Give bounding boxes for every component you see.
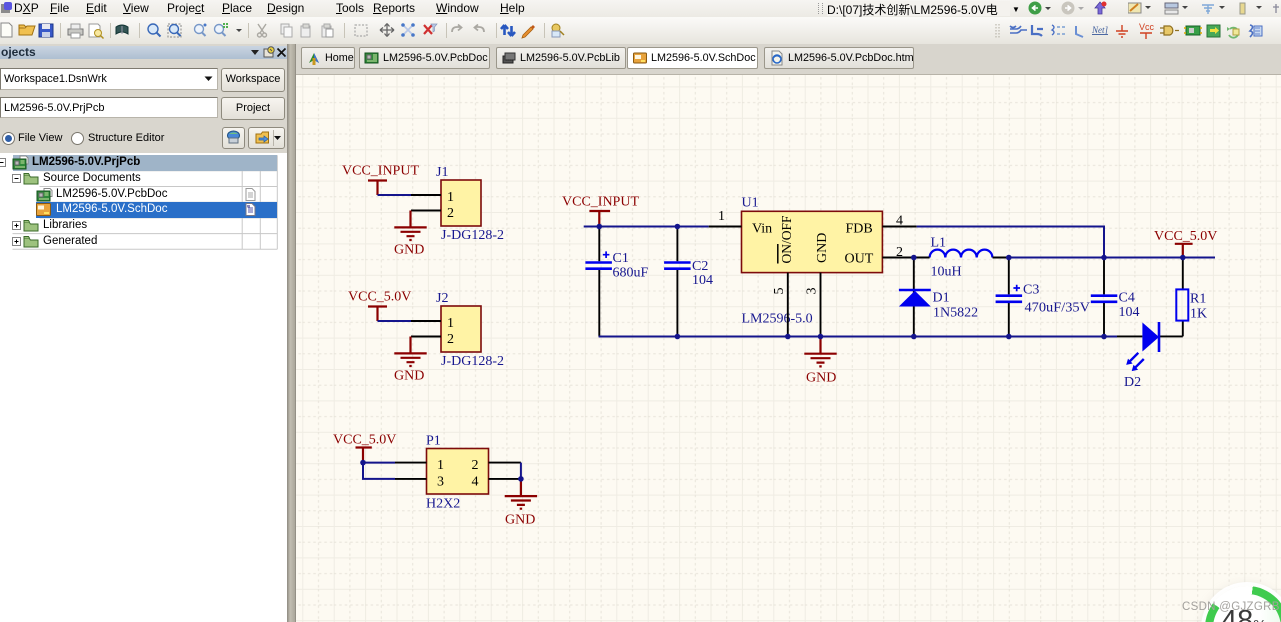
svg-text:470uF/35V: 470uF/35V xyxy=(1025,301,1091,316)
svg-text:VCC_5.0V: VCC_5.0V xyxy=(1154,229,1217,244)
connector P1 xyxy=(427,449,489,495)
wire FDB net xyxy=(917,227,1104,258)
wire bottom rail xyxy=(599,336,1117,338)
tree grid lines and columns xyxy=(0,153,287,273)
svg-text:1N5822: 1N5822 xyxy=(933,306,978,321)
svg-text:FDB: FDB xyxy=(846,222,873,237)
svg-text:C3: C3 xyxy=(1023,283,1039,298)
svg-text:1: 1 xyxy=(718,209,725,224)
svg-text:C1: C1 xyxy=(613,251,629,266)
svg-text:4: 4 xyxy=(472,474,479,489)
svg-text:GND: GND xyxy=(394,369,424,384)
LED D2 xyxy=(1117,335,1142,337)
inductor L1 xyxy=(930,250,993,258)
svg-text:3: 3 xyxy=(437,474,444,489)
svg-text:C4: C4 xyxy=(1119,291,1135,306)
ground GND (P1) xyxy=(505,479,537,509)
svg-text:VCC_INPUT: VCC_INPUT xyxy=(342,164,419,179)
power port VCC_INPUT (main) xyxy=(589,211,610,227)
svg-text:4: 4 xyxy=(896,214,903,229)
svg-text:Vcc: Vcc xyxy=(1139,22,1155,32)
ground GND (J2) xyxy=(394,337,426,367)
svg-text:1: 1 xyxy=(447,316,454,331)
svg-text:3: 3 xyxy=(804,288,819,295)
svg-text:GND: GND xyxy=(815,233,830,263)
svg-text:J-DG128-2: J-DG128-2 xyxy=(441,354,504,369)
svg-text:104: 104 xyxy=(1119,305,1140,320)
svg-text:VCC_5.0V: VCC_5.0V xyxy=(333,433,396,448)
svg-text:1: 1 xyxy=(447,190,454,205)
svg-text:GND: GND xyxy=(806,371,836,386)
svg-text:C2: C2 xyxy=(692,259,708,274)
svg-text:2: 2 xyxy=(472,458,479,473)
wire VCC_INPUT to J1 pin 1 xyxy=(378,194,412,196)
power port VCC_INPUT (J1) xyxy=(368,181,387,196)
op-amp U1 LM2596 body xyxy=(742,211,883,272)
pin 3 GND xyxy=(820,273,822,337)
svg-text:VCC_INPUT: VCC_INPUT xyxy=(562,195,639,210)
power port VCC_5.0V (output) xyxy=(1175,244,1193,258)
svg-text:J1: J1 xyxy=(436,165,448,180)
pin 5 ON/OFF xyxy=(787,273,789,337)
svg-text:2: 2 xyxy=(447,332,454,347)
pin 1 Vin xyxy=(709,226,742,228)
wire P1 left xyxy=(363,463,395,479)
svg-text:5: 5 xyxy=(772,288,787,295)
svg-text:2: 2 xyxy=(447,206,454,221)
svg-text:LM2596-5.0: LM2596-5.0 xyxy=(742,312,813,327)
diode D1 1N5822 xyxy=(913,258,915,337)
svg-text:GND: GND xyxy=(394,243,424,258)
pin 2 OUT xyxy=(882,257,913,259)
svg-text:1K: 1K xyxy=(1190,307,1207,322)
svg-text:2: 2 xyxy=(896,245,903,260)
svg-text:680uF: 680uF xyxy=(613,266,649,281)
svg-text:H2X2: H2X2 xyxy=(426,497,460,512)
resistor R1 xyxy=(1159,258,1183,337)
svg-text:Vin: Vin xyxy=(752,222,772,237)
svg-text:R1: R1 xyxy=(1190,292,1206,307)
wire output rail xyxy=(1009,257,1215,259)
svg-text:ON/OFF: ON/OFF xyxy=(780,215,795,263)
svg-text:GND: GND xyxy=(505,513,535,528)
svg-text:1: 1 xyxy=(437,458,444,473)
svg-text:U1: U1 xyxy=(742,196,759,211)
svg-text:J-DG128-2: J-DG128-2 xyxy=(441,228,504,243)
svg-text:104: 104 xyxy=(692,273,713,288)
svg-text:D1: D1 xyxy=(933,291,950,306)
svg-text:L1: L1 xyxy=(931,236,947,251)
capacitor C2 xyxy=(676,227,678,337)
svg-text:OUT: OUT xyxy=(845,252,874,267)
ground GND (J1) xyxy=(394,211,426,241)
capacitor C4 xyxy=(1103,258,1105,337)
svg-text:VCC_5.0V: VCC_5.0V xyxy=(348,290,411,305)
svg-text:Net]: Net] xyxy=(1091,25,1108,35)
wire P1 right xyxy=(520,463,522,479)
svg-text:P1: P1 xyxy=(426,434,441,449)
svg-text:D2: D2 xyxy=(1124,375,1141,390)
pin 4 FDB xyxy=(882,226,916,228)
svg-text:10uH: 10uH xyxy=(931,265,962,280)
power port VCC_5.0V (P1) xyxy=(356,448,372,463)
power port VCC_5.0V (J2) xyxy=(368,307,387,322)
wire input top rail xyxy=(584,226,709,228)
connector J1 xyxy=(441,180,481,226)
capacitor C1 xyxy=(598,227,600,337)
capacitor C3 xyxy=(1008,258,1010,337)
ground GND (U1) xyxy=(804,337,836,367)
wire VCC_5.0V to J2 pin 1 xyxy=(378,320,412,322)
connector J2 xyxy=(441,306,481,352)
svg-text:J2: J2 xyxy=(436,291,448,306)
